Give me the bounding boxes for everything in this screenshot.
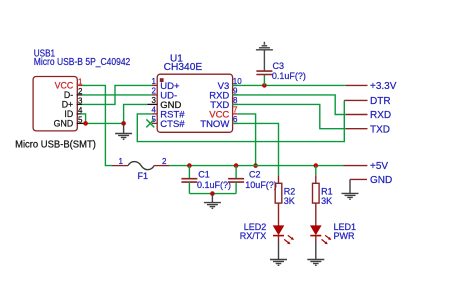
wire +5V rail	[169, 165, 343, 167]
U1 pin 4 stub and number	[152, 105, 158, 114]
resistor R2	[275, 175, 282, 225]
svg-text:10: 10	[233, 77, 242, 86]
connector USB1 body	[33, 77, 77, 131]
LED LED1	[310, 225, 331, 244]
ground symbol below LED1	[307, 243, 324, 266]
svg-text:1: 1	[152, 77, 157, 86]
label U1 reference	[170, 54, 183, 65]
resistor R1	[313, 166, 320, 226]
svg-text:CH340E: CH340E	[164, 62, 203, 73]
junction at C3 on +3.3V net	[262, 83, 267, 88]
junction U1 VCC on +5V rail	[253, 163, 258, 168]
svg-text:6: 6	[233, 115, 238, 124]
svg-text:GND: GND	[54, 118, 74, 128]
svg-text:9: 9	[233, 86, 238, 95]
U1 pin 8 stub and number	[232, 96, 238, 105]
label C1 reference	[198, 169, 210, 179]
net flag TXD	[346, 124, 390, 135]
svg-text:RXD: RXD	[370, 110, 391, 121]
U1 pin 6 stub and number	[232, 115, 238, 124]
svg-text:3: 3	[152, 96, 157, 105]
wire D+ from USB pin3 to U1 UD+	[82, 85, 152, 104]
svg-text:CTS#: CTS#	[160, 119, 185, 130]
svg-text:R2: R2	[284, 187, 296, 197]
U1 pin 9 stub and number	[232, 86, 238, 95]
svg-text:TXD: TXD	[370, 124, 390, 135]
wire TXD to flag	[232, 104, 346, 128]
capacitor C2	[228, 166, 244, 194]
wire V3 to +3.3V flag	[232, 84, 346, 86]
label LED2 reference	[244, 222, 267, 232]
label LED2 value RX/TX	[240, 231, 267, 241]
fuse F1	[112, 157, 169, 170]
U1 pin 5 stub and number	[152, 115, 158, 124]
wire VCC from USB pin1 to F1 pin1	[82, 85, 112, 165]
label C1 value 0.1uF(?)	[197, 180, 231, 190]
wire RST# to DTR flag	[137, 100, 344, 141]
svg-text:C2: C2	[249, 169, 261, 179]
wire GND net up to U1 GND pin	[124, 104, 148, 123]
label Micro USB-B(SMT)	[15, 139, 96, 150]
svg-text:5: 5	[78, 116, 83, 125]
ground symbol below USB GND net	[115, 123, 132, 139]
wire ID to GND net	[81, 114, 86, 124]
label USB1 value Micro USB-B 5P_C40942	[34, 57, 131, 68]
svg-text:VCC: VCC	[55, 80, 74, 90]
svg-text:DTR: DTR	[370, 96, 391, 107]
svg-text:10uF(?): 10uF(?)	[245, 180, 277, 190]
label R1 value 3K	[321, 196, 332, 206]
wire RXD to flag	[232, 95, 346, 115]
svg-text:0.1uF(?): 0.1uF(?)	[272, 71, 306, 81]
svg-text:R1: R1	[321, 187, 333, 197]
IC U1 CH340E body	[157, 74, 232, 132]
label LED1 value PWR	[334, 231, 355, 241]
wire C1 bottom to C2 bottom	[189, 193, 236, 195]
label R2 value 3K	[284, 196, 295, 206]
label C2 value 10uF(?)	[245, 180, 277, 190]
label C3 value 0.1uF(?)	[272, 71, 306, 81]
junction C1 on +5V rail	[187, 163, 192, 168]
label C2 reference	[249, 169, 261, 179]
net flag +3.3V	[346, 81, 397, 92]
net flag GND with ground symbol	[342, 175, 393, 199]
svg-text:TNOW: TNOW	[200, 119, 229, 130]
capacitor C1	[181, 166, 197, 194]
ground symbol above C3 (inverted)	[256, 42, 273, 50]
no-connect X on CTS#	[146, 119, 154, 127]
label U1 value CH340E	[164, 62, 203, 73]
svg-text:2: 2	[162, 157, 167, 166]
label C3 reference	[273, 61, 285, 71]
USB1 pin 2 stub and number	[77, 87, 83, 96]
svg-text:C3: C3	[273, 61, 285, 71]
junction C2 on +5V rail	[234, 163, 239, 168]
ground symbol below LED2	[270, 243, 287, 266]
svg-text:7: 7	[233, 105, 238, 114]
label USB1 reference	[34, 49, 56, 60]
net flag +5V	[344, 161, 389, 172]
LED LED2	[273, 225, 294, 244]
net flag RXD	[346, 110, 391, 121]
U1 pin 7 stub and number	[232, 105, 238, 114]
wire GND net USB pin5 to ground	[86, 122, 124, 124]
svg-text:1: 1	[119, 157, 124, 166]
junction at ID/GND tie	[83, 121, 88, 126]
svg-text:GND: GND	[370, 175, 392, 186]
svg-text:C1: C1	[198, 169, 210, 179]
USB1 pin 4 stub and number	[77, 106, 83, 115]
svg-text:RX/TX: RX/TX	[240, 231, 267, 241]
wire D- from USB pin2 to U1 UD-	[82, 94, 152, 96]
svg-text:Micro USB-B 5P_C40942: Micro USB-B 5P_C40942	[34, 57, 131, 68]
label F1 reference	[138, 171, 149, 181]
label R1 reference	[321, 187, 333, 197]
capacitor C3	[256, 50, 272, 85]
label R2 reference	[284, 187, 296, 197]
svg-text:4: 4	[152, 105, 157, 114]
svg-text:+5V: +5V	[370, 161, 388, 172]
U1 pin 1 stub and number	[152, 77, 158, 86]
ground symbol below C1/C2	[204, 194, 221, 209]
label LED1 reference	[334, 222, 357, 232]
svg-text:F1: F1	[138, 171, 149, 181]
svg-text:Micro USB-B(SMT): Micro USB-B(SMT)	[15, 139, 96, 150]
U1 pin 2 stub and number	[152, 86, 158, 95]
svg-text:D-: D-	[64, 90, 73, 100]
junction at GND/ground stem	[121, 121, 126, 126]
USB1 pin 3 stub and number	[77, 97, 83, 106]
svg-text:3K: 3K	[284, 196, 295, 206]
svg-text:ID: ID	[64, 109, 73, 119]
U1 pin 10 stub and number	[232, 77, 242, 86]
U1 pin 3 GND stub and number	[147, 96, 157, 105]
svg-text:3K: 3K	[321, 196, 332, 206]
USB1 pin 5 stub and number	[77, 116, 86, 125]
wire U1 VCC to +5V rail	[238, 114, 256, 166]
junction R1 on +5V rail	[314, 163, 319, 168]
svg-text:D+: D+	[62, 99, 74, 109]
wire TNOW to R2	[232, 123, 278, 175]
svg-text:2: 2	[152, 86, 157, 95]
net flag DTR	[344, 96, 390, 107]
svg-text:PWR: PWR	[334, 231, 355, 241]
USB1 pin 1 VCC stub and number	[77, 78, 83, 87]
svg-text:8: 8	[233, 96, 238, 105]
junction at capacitor ground	[210, 191, 215, 196]
svg-text:+3.3V: +3.3V	[370, 81, 397, 92]
svg-text:0.1uF(?): 0.1uF(?)	[197, 180, 231, 190]
